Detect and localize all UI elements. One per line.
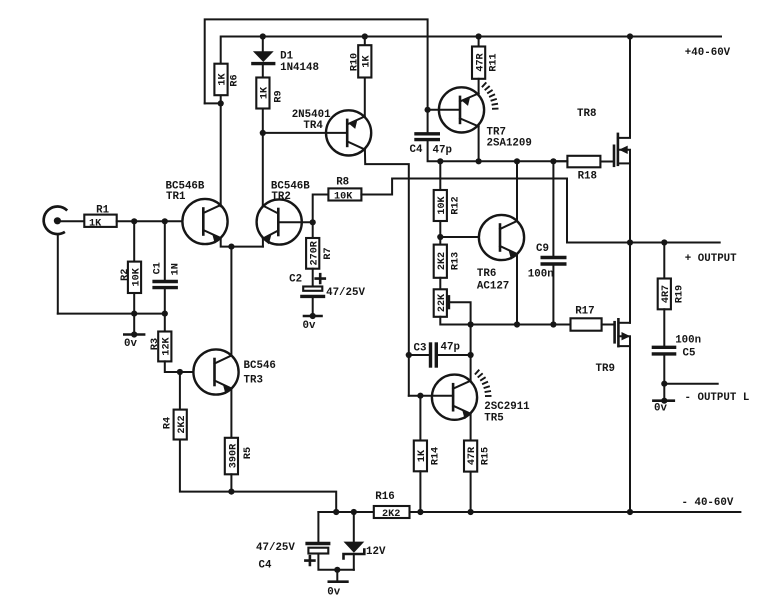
junction: C9 top xyxy=(550,158,556,164)
wire: +supply rail (R6 top, D1, R10, R11, TR8 drain) xyxy=(221,37,721,64)
svg-text:R2: R2 xyxy=(120,269,131,281)
svg-text:R13: R13 xyxy=(451,252,462,270)
wire: R9 bottom to TR4 base junction to TR2 collector xyxy=(262,109,264,206)
svg-text:12V: 12V xyxy=(366,546,386,558)
transistor TR5 2SC2911 (NPN) xyxy=(432,370,530,425)
wire: TR8 source down to output node xyxy=(629,163,631,242)
resistor R9 xyxy=(256,78,284,109)
wire: R6 bottom to TR1 collector xyxy=(220,95,222,206)
svg-text:TR9: TR9 xyxy=(596,363,615,375)
wire: signal rail top (R6 bottom to TR7 base / C4 line) xyxy=(205,19,428,109)
svg-text:270R: 270R xyxy=(310,240,321,265)
junction: R10 top on +rail xyxy=(362,33,368,39)
junction: zener top xyxy=(351,509,357,515)
wire: ground wire to C1/R3 xyxy=(58,313,165,315)
wire: R19 bottom to C5 xyxy=(663,309,665,347)
junction: R4/TR3 base xyxy=(177,369,183,375)
wire: - OUTPUT L xyxy=(664,383,717,385)
wire: C1 bottom to ground wire xyxy=(164,288,166,314)
junction: C1/TR1 base xyxy=(162,218,168,224)
wire: zener top lead xyxy=(353,512,355,542)
capacitor C4 47/25V electrolytic xyxy=(256,542,329,572)
svg-text:4R7: 4R7 xyxy=(661,285,672,303)
wire: TR6 base lead xyxy=(440,236,479,238)
wire: TR5 emitter down to R15 xyxy=(470,414,472,441)
capacitor C2 47/25V electrolytic xyxy=(289,274,365,300)
input connector xyxy=(44,206,68,234)
svg-text:R12: R12 xyxy=(451,196,462,214)
wire: C5 bottom to OUTPUT L junction xyxy=(663,354,665,384)
resistor R10 xyxy=(350,45,373,77)
wire: R15 bottom to negative rail xyxy=(470,472,472,512)
wire: output node down to TR9 top xyxy=(629,243,631,323)
ground 0v (C2) xyxy=(303,313,322,332)
wire: R8 left lead xyxy=(313,195,329,223)
resistor R12 xyxy=(434,190,462,221)
svg-text:R3: R3 xyxy=(150,338,161,350)
wire: R14 top lead xyxy=(419,396,421,441)
svg-text:2SA1209: 2SA1209 xyxy=(487,138,532,150)
svg-text:1K: 1K xyxy=(417,449,428,462)
junction: TR7 base xyxy=(425,107,431,113)
svg-text:47p: 47p xyxy=(441,342,460,354)
svg-text:2SC2911: 2SC2911 xyxy=(484,401,530,413)
resistor R7 xyxy=(306,238,334,269)
wire: R2 bottom to ground wire xyxy=(133,293,135,314)
wire: R4 top lead xyxy=(179,372,181,410)
wire: TR5 base lead xyxy=(409,395,432,397)
svg-text:R16: R16 xyxy=(375,491,394,503)
wire: stub rail1 left into R6 bottom junction xyxy=(205,102,221,104)
wire: bias top wire C9 to R18 xyxy=(553,160,567,162)
transistor TR4 2N5401 (PNP) xyxy=(292,109,372,156)
junction: wiper/TR5 collector line xyxy=(468,321,474,327)
diode D1 1N4148 xyxy=(253,51,319,75)
svg-text:R6: R6 xyxy=(229,74,240,86)
svg-text:12K: 12K xyxy=(162,336,173,355)
wire: R1 to TR1 base xyxy=(117,220,183,222)
zener diode 12V xyxy=(344,542,386,559)
svg-text:0v: 0v xyxy=(124,338,137,350)
capacitor C1 1N xyxy=(153,262,182,287)
junction: R5 on lower-left wire xyxy=(228,489,234,495)
svg-text:C4: C4 xyxy=(259,560,272,572)
wire: TR7 base lead xyxy=(428,109,460,111)
wire: rail to R11 xyxy=(478,37,480,47)
wire: R7 top lead xyxy=(312,222,314,238)
svg-text:C3: C3 xyxy=(414,343,427,355)
resistor R16 xyxy=(374,491,410,520)
svg-text:R15: R15 xyxy=(481,447,492,465)
wire: TR6 emitter down to bias bottom wire xyxy=(516,254,518,325)
svg-text:+ OUTPUT: + OUTPUT xyxy=(685,253,737,265)
wire: C4 bottom to bias top wire xyxy=(428,140,568,162)
junction: C3 left on TR5 base line xyxy=(406,352,412,358)
capacitor C3 47p xyxy=(409,342,471,367)
resistor R1 xyxy=(84,205,116,230)
wire: TR7 base/C4 line down from rail1 xyxy=(427,110,429,134)
svg-text:TR8: TR8 xyxy=(577,108,596,120)
svg-text:R11: R11 xyxy=(489,53,500,71)
svg-text:D1: D1 xyxy=(280,51,293,63)
svg-text:TR2: TR2 xyxy=(271,191,290,203)
svg-text:0v: 0v xyxy=(654,403,667,415)
wire: R14 bottom to negative rail xyxy=(419,471,421,512)
svg-text:47p: 47p xyxy=(433,145,452,157)
wire: TR4 base lead xyxy=(263,132,347,134)
junction: OUTPUT L node xyxy=(661,381,667,387)
transistor TR8 (N-ch MOSFET) xyxy=(577,108,630,166)
svg-text:1K: 1K xyxy=(260,86,271,99)
junction: lower-left wire on negative rail xyxy=(333,509,339,515)
svg-text:R10: R10 xyxy=(350,53,361,71)
junction: R6 bottom / rail1 xyxy=(218,100,224,106)
wire: R17 right lead to TR9 gate xyxy=(602,324,615,326)
svg-text:TR6: TR6 xyxy=(477,268,496,280)
resistor R11 xyxy=(472,47,500,79)
svg-text:TR3: TR3 xyxy=(244,375,263,387)
junction: C1/R3 on ground wire xyxy=(162,311,168,317)
svg-text:2K2: 2K2 xyxy=(437,252,448,270)
resistor R19 xyxy=(658,279,686,310)
junction: TR7 collector on bias wire xyxy=(476,158,482,164)
svg-text:2K2: 2K2 xyxy=(382,509,400,520)
wire: connector shield down to ground wire xyxy=(57,234,59,314)
junction: emitters/TR3 collector xyxy=(228,244,234,250)
svg-text:1N: 1N xyxy=(171,263,182,275)
wire: R8 right lead up to feedback wire from output xyxy=(361,179,719,243)
wire: bias chain top lead xyxy=(439,161,441,190)
svg-text:R9: R9 xyxy=(273,90,284,102)
wire: R12 to R13 xyxy=(439,221,441,245)
resistor R4 xyxy=(163,410,189,440)
wire: R3 bottom to TR3 base xyxy=(165,361,194,372)
resistor R2 xyxy=(120,262,143,293)
svg-text:TR1: TR1 xyxy=(166,191,186,203)
resistor R8 xyxy=(328,177,361,203)
junction: TR6 base tap xyxy=(437,234,443,240)
wire: zener bottom to ground wire xyxy=(353,554,355,570)
capacitor C5 100n xyxy=(653,335,701,360)
wire: TR1 emitter to shared emitter junction xyxy=(221,238,263,247)
junction: D1 top on +rail xyxy=(260,33,266,39)
junction: R14 top tap xyxy=(417,393,423,399)
junction: R1/R2 xyxy=(131,218,137,224)
wire: negative rail xyxy=(318,511,740,513)
junction: C9 bottom xyxy=(550,321,556,327)
svg-text:C9: C9 xyxy=(536,243,549,255)
svg-text:+40-60V: +40-60V xyxy=(685,47,731,59)
wire: D1 to R9 xyxy=(262,64,264,78)
wire: connector to R1 xyxy=(57,220,84,222)
ground 0v (input) xyxy=(124,311,144,351)
wire: R5 bottom to lower-left wire xyxy=(230,474,232,491)
transistor TR2 BC546B (NPN mirrored) xyxy=(257,181,311,245)
wire: TR4 collector down/right/down to C3 and TR5 base xyxy=(365,150,409,396)
svg-text:47R: 47R xyxy=(476,52,487,71)
wire: TR7 collector down to bias top wire xyxy=(478,126,480,161)
wire: rail to D1 xyxy=(262,37,264,52)
svg-text:2K2: 2K2 xyxy=(177,415,188,433)
capacitor C4 47p xyxy=(410,134,452,157)
junction: C3 right on TR5 collector line xyxy=(468,352,474,358)
resistor R18 xyxy=(567,156,600,183)
svg-text:- OUTPUT L: - OUTPUT L xyxy=(685,392,750,404)
svg-text:0v: 0v xyxy=(327,587,340,599)
svg-text:10K: 10K xyxy=(334,192,353,203)
transistor TR7 2SA1209 (PNP) xyxy=(439,82,532,149)
resistor R17 xyxy=(571,306,602,331)
junction: TR6 emitter xyxy=(514,321,520,327)
svg-text:47/25V: 47/25V xyxy=(256,542,295,554)
junction: R14 bottom / R16 right xyxy=(417,509,423,515)
junction: TR8 source / output wire xyxy=(627,239,633,245)
svg-text:1K: 1K xyxy=(362,55,373,68)
svg-text:1K: 1K xyxy=(89,218,102,229)
svg-text:R7: R7 xyxy=(323,247,334,259)
ground 0v (C4/zener) xyxy=(327,567,347,599)
wire: TR2 base lead to R7/R8 node xyxy=(278,221,312,223)
junction: R12 top on bias wire xyxy=(437,158,443,164)
wire: TR6 collector up to bias top wire xyxy=(516,161,518,221)
resistor R6 xyxy=(214,64,240,95)
svg-text:C5: C5 xyxy=(683,348,696,360)
svg-text:C2: C2 xyxy=(289,274,302,286)
svg-text:47/25V: 47/25V xyxy=(326,287,365,299)
svg-text:100n: 100n xyxy=(528,269,554,281)
svg-text:R1: R1 xyxy=(96,205,109,217)
svg-text:390R: 390R xyxy=(229,443,240,468)
junction: TR9 on negative rail xyxy=(627,509,633,515)
svg-text:TR5: TR5 xyxy=(484,413,503,425)
svg-text:22K: 22K xyxy=(437,293,448,312)
svg-text:R18: R18 xyxy=(578,171,597,183)
preset 22K xyxy=(434,289,471,324)
svg-text:R5: R5 xyxy=(243,447,254,459)
resistor R5 xyxy=(225,438,254,475)
wire: R19 top lead xyxy=(663,243,665,279)
junction: R15 bottom xyxy=(468,509,474,515)
svg-text:10K: 10K xyxy=(437,195,448,214)
wire: C1 top lead xyxy=(164,221,166,281)
wire: C4 top lead from negative rail wire xyxy=(317,512,319,544)
svg-text:R14: R14 xyxy=(431,447,442,465)
wire: R2 top lead xyxy=(133,221,135,261)
svg-text:R4: R4 xyxy=(163,417,174,429)
svg-text:100n: 100n xyxy=(675,335,701,347)
wire: TR9 bottom down to negative rail xyxy=(629,346,631,512)
svg-text:47R: 47R xyxy=(467,446,478,465)
resistor R15 xyxy=(464,441,492,472)
wire: TR3 emitter to R5 xyxy=(230,389,232,438)
resistor R14 xyxy=(414,441,442,472)
transistor TR6 AC127 (NPN) xyxy=(477,215,524,293)
wire: TR5 collector up to C3 junction xyxy=(470,355,472,381)
wire: R3 top lead xyxy=(164,314,166,332)
wire: down to C3 right / TR5 collector xyxy=(470,325,472,356)
junction: TR6 collector xyxy=(514,158,520,164)
wire: rail to R10 xyxy=(364,37,366,46)
wire: 22K bottom to bias bottom wire xyxy=(440,317,570,325)
svg-text:0v: 0v xyxy=(303,320,316,332)
wire: R4 bottom to lower-left wire xyxy=(180,440,336,513)
svg-text:R19: R19 xyxy=(674,285,685,303)
wire: R10 bottom to TR4 emitter xyxy=(364,78,366,117)
svg-text:R8: R8 xyxy=(336,177,349,189)
junction: R19 top on output wire xyxy=(661,239,667,245)
transistor TR9 (P-ch MOSFET) xyxy=(596,319,631,375)
wire: C4 bottom to ground wire xyxy=(318,554,353,570)
wire: rail down to TR8 drain xyxy=(618,37,630,138)
capacitor C9 100n xyxy=(528,243,565,281)
svg-text:AC127: AC127 xyxy=(477,281,509,293)
svg-text:C1: C1 xyxy=(153,262,164,274)
resistor R3 xyxy=(150,332,172,362)
junction: TR2 base / R7 / R8 xyxy=(310,219,316,225)
svg-text:10K: 10K xyxy=(132,267,143,286)
wire: R18 right lead to TR8 gate xyxy=(600,161,614,163)
wire: C9 top lead xyxy=(552,161,554,257)
wire: C2 bottom to ground xyxy=(312,296,314,316)
wire: TR3 collector up to emitter junction xyxy=(230,247,232,356)
transistor TR1 BC546B (NPN) xyxy=(166,181,228,245)
junction: R11 top on +rail xyxy=(476,33,482,39)
svg-text:BC546: BC546 xyxy=(244,360,276,372)
transistor TR3 BC546 (NPN) xyxy=(193,349,276,394)
wire: R11 bottom to TR7 emitter xyxy=(478,79,480,94)
svg-text:R17: R17 xyxy=(575,306,594,318)
junction: TR4 base tap xyxy=(260,130,266,136)
wire: TR2 emitter down to emitter wire xyxy=(262,239,264,247)
resistor R13 xyxy=(434,245,462,278)
svg-text:C4: C4 xyxy=(410,144,423,156)
junction: TR8 drain on +rail xyxy=(627,33,633,39)
svg-text:1N4148: 1N4148 xyxy=(280,62,319,74)
svg-text:TR4: TR4 xyxy=(303,120,323,132)
wire: C9 bottom lead xyxy=(552,264,554,325)
ground 0v (C5) xyxy=(653,384,673,415)
svg-text:1K: 1K xyxy=(218,73,229,86)
wire: R7 bottom to C2 xyxy=(312,269,314,287)
wire: R13 to 22K preset xyxy=(439,278,441,290)
svg-text:- 40-60V: - 40-60V xyxy=(682,497,734,509)
